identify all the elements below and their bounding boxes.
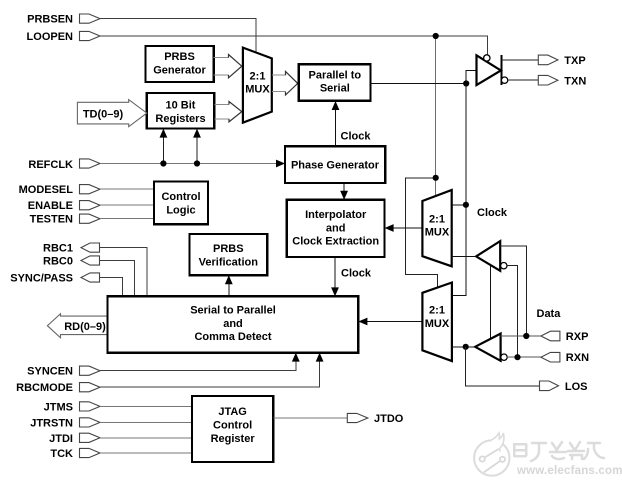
pin RBC0 [43, 256, 99, 268]
wire Interpolator clock to Serial to Parallel [334, 257, 336, 290]
svg-text:Parallel to: Parallel to [309, 70, 362, 82]
svg-text:Phase Generator: Phase Generator [291, 160, 380, 172]
hollow arrow PRBS Generator to MUX1 [214, 58, 229, 75]
box JTAG Control Register [192, 396, 273, 462]
svg-text:TCK: TCK [50, 448, 73, 460]
svg-text:Registers: Registers [155, 113, 205, 125]
pin RD(0-9) block arrow [47, 314, 107, 338]
junction dot clock branch [463, 202, 469, 208]
svg-text:RBCMODE: RBCMODE [16, 382, 73, 394]
svg-text:LOOPEN: LOOPEN [27, 31, 74, 43]
svg-text:RXN: RXN [566, 352, 589, 364]
wire TXN [508, 79, 538, 81]
svg-text:REFCLK: REFCLK [28, 159, 73, 171]
box Parallel to Serial [299, 64, 371, 101]
pin PRBSEN [27, 14, 100, 26]
wire RBCMODE to S2P [100, 359, 320, 387]
wire JTMS [100, 405, 192, 407]
svg-text:JTMS: JTMS [44, 401, 73, 413]
wire REFCLK up to registers (left) [162, 135, 164, 164]
wire LOOPEN across top [100, 36, 487, 55]
svg-text:RBC0: RBC0 [43, 256, 73, 268]
wire ENABLE to Control Logic [100, 204, 154, 206]
pin TXP [538, 55, 585, 67]
svg-text:TXP: TXP [564, 55, 585, 67]
wire PRBSEN to MUX1 select [100, 19, 256, 53]
svg-text:2:1: 2:1 [429, 214, 445, 226]
pin LOS [540, 381, 588, 393]
wire MUX3 output to Interpolator [391, 227, 422, 229]
box Phase Generator [285, 146, 385, 183]
svg-text:Generator: Generator [153, 65, 206, 77]
wire Parallel to Serial output to TX buffer [371, 71, 477, 84]
buffer RX input lower [475, 334, 507, 361]
pin RXN [541, 352, 589, 364]
svg-text:MUX: MUX [425, 227, 450, 239]
svg-text:RD(0–9): RD(0–9) [64, 321, 106, 333]
wire MODESEL to Control Logic [100, 188, 154, 190]
junction dot P2S output [463, 80, 469, 86]
pin RBC1 [43, 243, 99, 255]
svg-text:JTAG: JTAG [218, 406, 247, 418]
svg-text:Logic: Logic [166, 205, 195, 217]
svg-text:PRBSEN: PRBSEN [27, 14, 73, 26]
svg-text:TESTEN: TESTEN [30, 214, 73, 226]
junction dot LOS branch [463, 344, 469, 350]
junction dot LOOPEN/select [433, 33, 439, 39]
svg-text:JTRSTN: JTRSTN [30, 417, 73, 429]
wire RBC1 from S2P [100, 248, 147, 297]
wire Phase Generator to Interpolator [343, 183, 345, 193]
mux 2:1 MUX U3 (clock, receive side) [422, 190, 451, 266]
wire TXP [501, 59, 538, 61]
wire buffer enable link [490, 265, 492, 338]
svg-text:MODESEL: MODESEL [19, 184, 74, 196]
pin TXN [538, 75, 586, 87]
pin TD(0-9) block arrow [77, 100, 146, 127]
pin JTDI [49, 433, 100, 445]
mux 2:1 MUX U1 (transmit) [243, 48, 272, 123]
svg-text:MUX: MUX [425, 318, 450, 330]
wire serial data riser to MUX3/MUX4 [452, 84, 466, 296]
svg-text:MUX: MUX [245, 84, 270, 96]
wire branch to MUX3 input [452, 204, 466, 206]
svg-text:Register: Register [211, 433, 256, 445]
pin SYNCEN [27, 366, 100, 378]
pin ENABLE [28, 200, 100, 212]
svg-text:and: and [326, 222, 346, 234]
pin SYNC/PASS [10, 273, 99, 285]
svg-text:and: and [223, 318, 243, 330]
box 10 Bit Registers [147, 93, 215, 129]
junction dot RXN [514, 354, 520, 360]
wire JTDO [273, 417, 347, 419]
wire select routing to MUX4 [405, 178, 437, 288]
svg-text:10 Bit: 10 Bit [166, 100, 196, 112]
watermark chinese text [514, 442, 604, 461]
svg-text:TXN: TXN [564, 75, 586, 87]
hollow arrow MUX1 to Parallel to Serial [272, 75, 286, 91]
pin JTMS [44, 401, 100, 413]
wire RXN riser to upper buffer [507, 266, 517, 358]
wire TCK [100, 452, 192, 454]
buffer RX input upper [476, 241, 507, 271]
wire RXP [501, 335, 541, 337]
box PRBS Generator [145, 46, 213, 82]
svg-text:JTDI: JTDI [49, 433, 73, 445]
junction dot select branch [433, 175, 439, 181]
svg-text:Control: Control [161, 191, 200, 203]
box Interpolator and Clock Extraction [287, 200, 385, 257]
wire REFCLK up to registers (right) [196, 135, 198, 164]
svg-text:Interpolator: Interpolator [305, 209, 367, 221]
svg-text:Comma Detect: Comma Detect [194, 331, 271, 343]
svg-text:RXP: RXP [566, 331, 589, 343]
svg-text:LOS: LOS [565, 381, 588, 393]
wire REFCLK to Phase Generator [100, 163, 278, 165]
wire RXP riser to upper buffer [500, 246, 526, 336]
pin JTDO [347, 413, 403, 425]
svg-text:2:1: 2:1 [429, 305, 445, 317]
svg-text:Serial to Parallel: Serial to Parallel [190, 305, 276, 317]
box PRBS Verification [190, 234, 268, 275]
svg-text:Data: Data [537, 308, 562, 320]
svg-text:Clock: Clock [341, 268, 372, 280]
wire MUX4 output to S2P [365, 321, 422, 323]
svg-text:Serial: Serial [320, 83, 350, 95]
pin LOOPEN [27, 31, 100, 43]
svg-text:Verification: Verification [199, 256, 259, 268]
svg-text:TD(0–9): TD(0–9) [83, 109, 124, 121]
hollow arrow 10 Bit Registers to MUX1 [214, 105, 229, 119]
svg-text:JTDO: JTDO [374, 413, 404, 425]
svg-text:SYNC/PASS: SYNC/PASS [10, 273, 73, 285]
wire SYNCEN to S2P [100, 359, 296, 371]
pin MODESEL [19, 184, 100, 196]
pin REFCLK [28, 159, 100, 171]
svg-text:PRBS: PRBS [213, 243, 244, 255]
wire clock Phase Generator to Parallel to Serial [335, 108, 337, 146]
svg-text:Clock: Clock [341, 131, 372, 143]
pin RXP [541, 331, 589, 343]
svg-text:Control: Control [213, 420, 252, 432]
wire JTDI [100, 437, 192, 439]
buffer TX driver [477, 55, 508, 85]
wire S2P to PRBS Verification [228, 282, 230, 296]
svg-text:ENABLE: ENABLE [28, 200, 73, 212]
watermark logo [474, 433, 509, 476]
wire JTRSTN [100, 421, 192, 423]
wire RBC0 from S2P [100, 261, 135, 297]
wire SYNC/PASS from S2P [100, 278, 123, 297]
wire lower RX buffer output to MUX4 [452, 346, 475, 348]
wire LOOPEN drop to MUX3 select [435, 36, 437, 196]
junction dot RXP [523, 333, 529, 339]
mux 2:1 MUX U4 (data, receive side) [422, 283, 452, 362]
svg-text:www.elecfans.com: www.elecfans.com [516, 465, 622, 477]
wire upper RX buffer output to MUX3 [452, 255, 476, 257]
box Control Logic [154, 182, 208, 225]
wire LOS [466, 347, 540, 386]
svg-text:RBC1: RBC1 [43, 243, 73, 255]
svg-text:Clock Extraction: Clock Extraction [292, 236, 379, 248]
wire TESTEN to Control Logic [100, 218, 154, 220]
pin TESTEN [30, 214, 100, 226]
pin RBCMODE [16, 382, 100, 394]
pin JTRSTN [30, 417, 100, 429]
svg-text:Clock: Clock [477, 207, 508, 219]
svg-text:2:1: 2:1 [250, 71, 266, 83]
box Serial to Parallel and Comma Detect [108, 296, 359, 352]
pin TCK [50, 448, 100, 460]
svg-text:PRBS: PRBS [164, 51, 195, 63]
wire RXN [507, 356, 541, 358]
svg-text:SYNCEN: SYNCEN [27, 366, 73, 378]
